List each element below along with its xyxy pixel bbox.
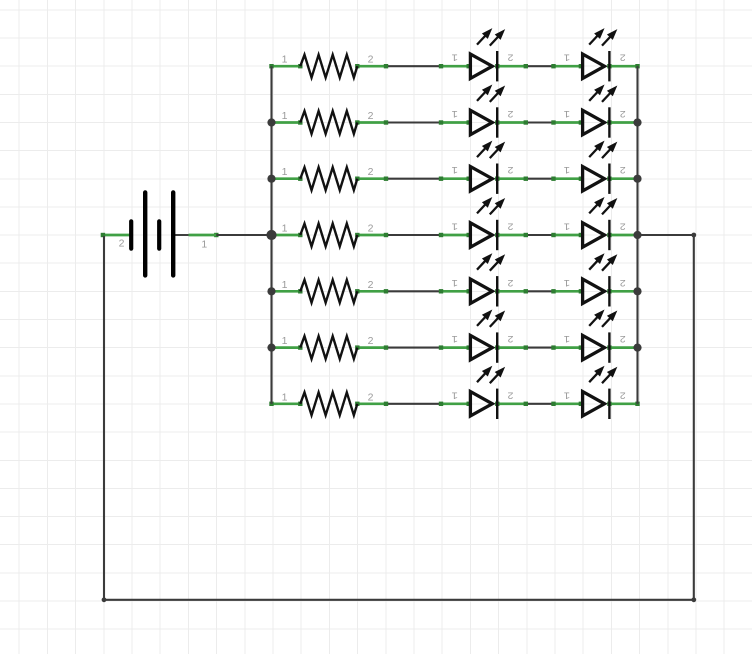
svg-text:2: 2	[620, 388, 626, 400]
svg-text:2: 2	[620, 220, 626, 232]
svg-text:1: 1	[452, 276, 458, 288]
svg-text:2: 2	[368, 54, 374, 66]
svg-text:2: 2	[368, 391, 374, 403]
svg-text:1: 1	[452, 220, 458, 232]
svg-text:2: 2	[368, 223, 374, 235]
svg-text:2: 2	[507, 107, 513, 119]
svg-text:1: 1	[452, 332, 458, 344]
svg-text:2: 2	[620, 107, 626, 119]
svg-text:1: 1	[282, 54, 288, 66]
svg-text:1: 1	[564, 388, 570, 400]
svg-text:1: 1	[564, 332, 570, 344]
svg-text:1: 1	[564, 220, 570, 232]
svg-text:2: 2	[507, 388, 513, 400]
svg-text:1: 1	[564, 163, 570, 175]
svg-text:2: 2	[507, 51, 513, 63]
svg-text:1: 1	[282, 335, 288, 347]
svg-text:1: 1	[452, 388, 458, 400]
svg-text:1: 1	[282, 223, 288, 235]
svg-text:1: 1	[452, 51, 458, 63]
svg-text:1: 1	[201, 238, 207, 250]
svg-text:2: 2	[507, 220, 513, 232]
svg-text:2: 2	[119, 238, 125, 250]
svg-text:1: 1	[282, 110, 288, 122]
svg-text:1: 1	[564, 51, 570, 63]
svg-text:1: 1	[282, 391, 288, 403]
svg-text:1: 1	[564, 276, 570, 288]
svg-text:2: 2	[507, 163, 513, 175]
svg-text:1: 1	[452, 107, 458, 119]
svg-text:2: 2	[368, 110, 374, 122]
svg-text:2: 2	[507, 332, 513, 344]
svg-text:2: 2	[368, 166, 374, 178]
svg-text:2: 2	[507, 276, 513, 288]
svg-text:2: 2	[368, 279, 374, 291]
svg-text:2: 2	[368, 335, 374, 347]
svg-text:1: 1	[452, 163, 458, 175]
svg-text:2: 2	[620, 51, 626, 63]
svg-text:1: 1	[282, 279, 288, 291]
svg-text:1: 1	[282, 166, 288, 178]
svg-text:2: 2	[620, 276, 626, 288]
svg-text:2: 2	[620, 163, 626, 175]
svg-text:1: 1	[564, 107, 570, 119]
svg-text:2: 2	[620, 332, 626, 344]
